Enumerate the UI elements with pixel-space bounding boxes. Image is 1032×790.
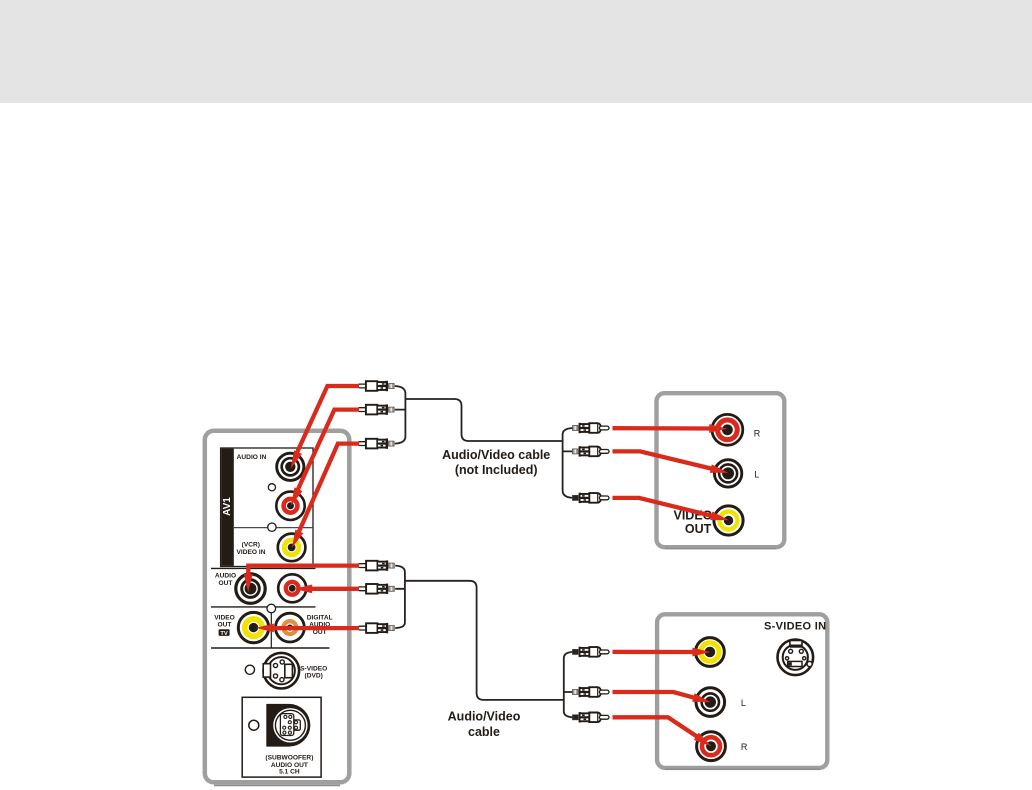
- svg-text:cable: cable: [468, 725, 500, 739]
- svg-text:VIDEO: VIDEO: [214, 614, 235, 621]
- svg-text:R: R: [754, 428, 761, 438]
- jack AUDIO IN: [277, 453, 304, 480]
- svg-text:R: R: [741, 742, 748, 752]
- jack VIDEO OUT yellow: [238, 612, 268, 642]
- svg-text:5.1 CH: 5.1 CH: [279, 769, 300, 776]
- RCA plug AV1 video: [358, 438, 395, 448]
- red cable to VCR L jack: [613, 451, 730, 477]
- jack VIDEO OUT yellow: [714, 506, 743, 535]
- S-VIDEO IN connector: [778, 640, 814, 676]
- svg-text:AV1: AV1: [222, 497, 233, 516]
- svg-text:VIDEO IN: VIDEO IN: [237, 549, 266, 556]
- RCA plug SVID video: [573, 647, 610, 657]
- subwoofer box: [242, 697, 321, 777]
- red cable to VIDEO IN jack: [288, 444, 359, 550]
- RCA plug AV1 audio L: [358, 404, 395, 414]
- jack AUDIO IN red: [276, 492, 304, 520]
- jack AUDIO OUT L: [236, 574, 265, 603]
- jack AUDIO OUT R red: [278, 574, 306, 602]
- RCA plug VCR L: [573, 446, 610, 456]
- red cable to AUDIO OUT L jack: [244, 566, 359, 593]
- red cable to AUDIO IN red jack: [287, 410, 359, 508]
- RCA plug SVID L: [573, 687, 610, 697]
- wire harness bottom: [395, 566, 573, 718]
- svg-text:S-VIDEO: S-VIDEO: [300, 665, 327, 672]
- AV1 group box: [221, 448, 313, 567]
- red cable to SVID panel L jack: [613, 692, 712, 707]
- svg-text:AUDIO: AUDIO: [215, 573, 236, 580]
- svg-text:AUDIO IN: AUDIO IN: [237, 454, 267, 461]
- jack DIGITAL AUDIO OUT orange: [276, 613, 305, 642]
- red cable to VCR R jack: [613, 424, 728, 433]
- svg-text:Audio/Video: Audio/Video: [448, 709, 521, 723]
- svg-text:(SUBWOOFER): (SUBWOOFER): [265, 755, 313, 762]
- jack L: [696, 688, 725, 717]
- jack L: [714, 460, 741, 487]
- separator line: [211, 647, 330, 649]
- svg-text:(not Included): (not Included): [455, 463, 538, 477]
- jack R red: [697, 732, 726, 761]
- svg-text:S-VIDEO IN: S-VIDEO IN: [764, 621, 826, 633]
- svg-text:Audio/Video cable: Audio/Video cable: [442, 448, 550, 462]
- jack VIDEO IN yellow: [278, 534, 306, 562]
- RCA plug AV1 audio R: [358, 381, 395, 391]
- RCA plug VCR R: [573, 423, 610, 433]
- red cable to SVID panel video jack: [613, 648, 711, 657]
- screw hole: [268, 484, 275, 491]
- RCA plug TV audio R: [358, 584, 395, 594]
- svg-text:OUT: OUT: [218, 622, 232, 629]
- RCA plug SVID R: [573, 712, 610, 722]
- red cable to VIDEO OUT jack: [256, 624, 359, 633]
- red cable to AUDIO OUT R jack: [294, 585, 359, 594]
- wire harness top-left trio: [395, 386, 573, 498]
- jack R red: [712, 414, 743, 445]
- red cable to VCR video jack: [613, 498, 730, 524]
- svg-text:OUT: OUT: [219, 580, 233, 587]
- screw hole: [268, 523, 276, 531]
- RCA plug TV audio L: [358, 560, 395, 570]
- subwoofer DIN connector: [266, 704, 310, 747]
- svg-text:OUT: OUT: [685, 522, 712, 536]
- svg-text:DIGITAL: DIGITAL: [307, 614, 333, 621]
- red cable to SVID panel R jack: [613, 717, 714, 750]
- svg-text:(VCR): (VCR): [242, 542, 260, 549]
- screw hole: [267, 604, 276, 613]
- separator line: [211, 606, 316, 608]
- svg-text:L: L: [741, 698, 746, 708]
- S-VIDEO (DVD) connector: [263, 653, 299, 689]
- RCA plug TV video: [358, 623, 395, 633]
- TV panel outline: [205, 431, 349, 786]
- screw hole: [245, 665, 254, 674]
- jack video yellow: [696, 638, 725, 667]
- top gray bar: [0, 0, 1032, 103]
- svg-text:TV: TV: [220, 631, 228, 637]
- divider: [270, 613, 272, 648]
- screw hole: [249, 720, 259, 730]
- svg-text:(DVD): (DVD): [305, 673, 323, 680]
- RCA plug VCR video: [573, 493, 610, 503]
- red cable to AUDIO IN jack: [287, 386, 359, 470]
- separator line: [211, 567, 316, 569]
- svg-text:L: L: [754, 470, 759, 480]
